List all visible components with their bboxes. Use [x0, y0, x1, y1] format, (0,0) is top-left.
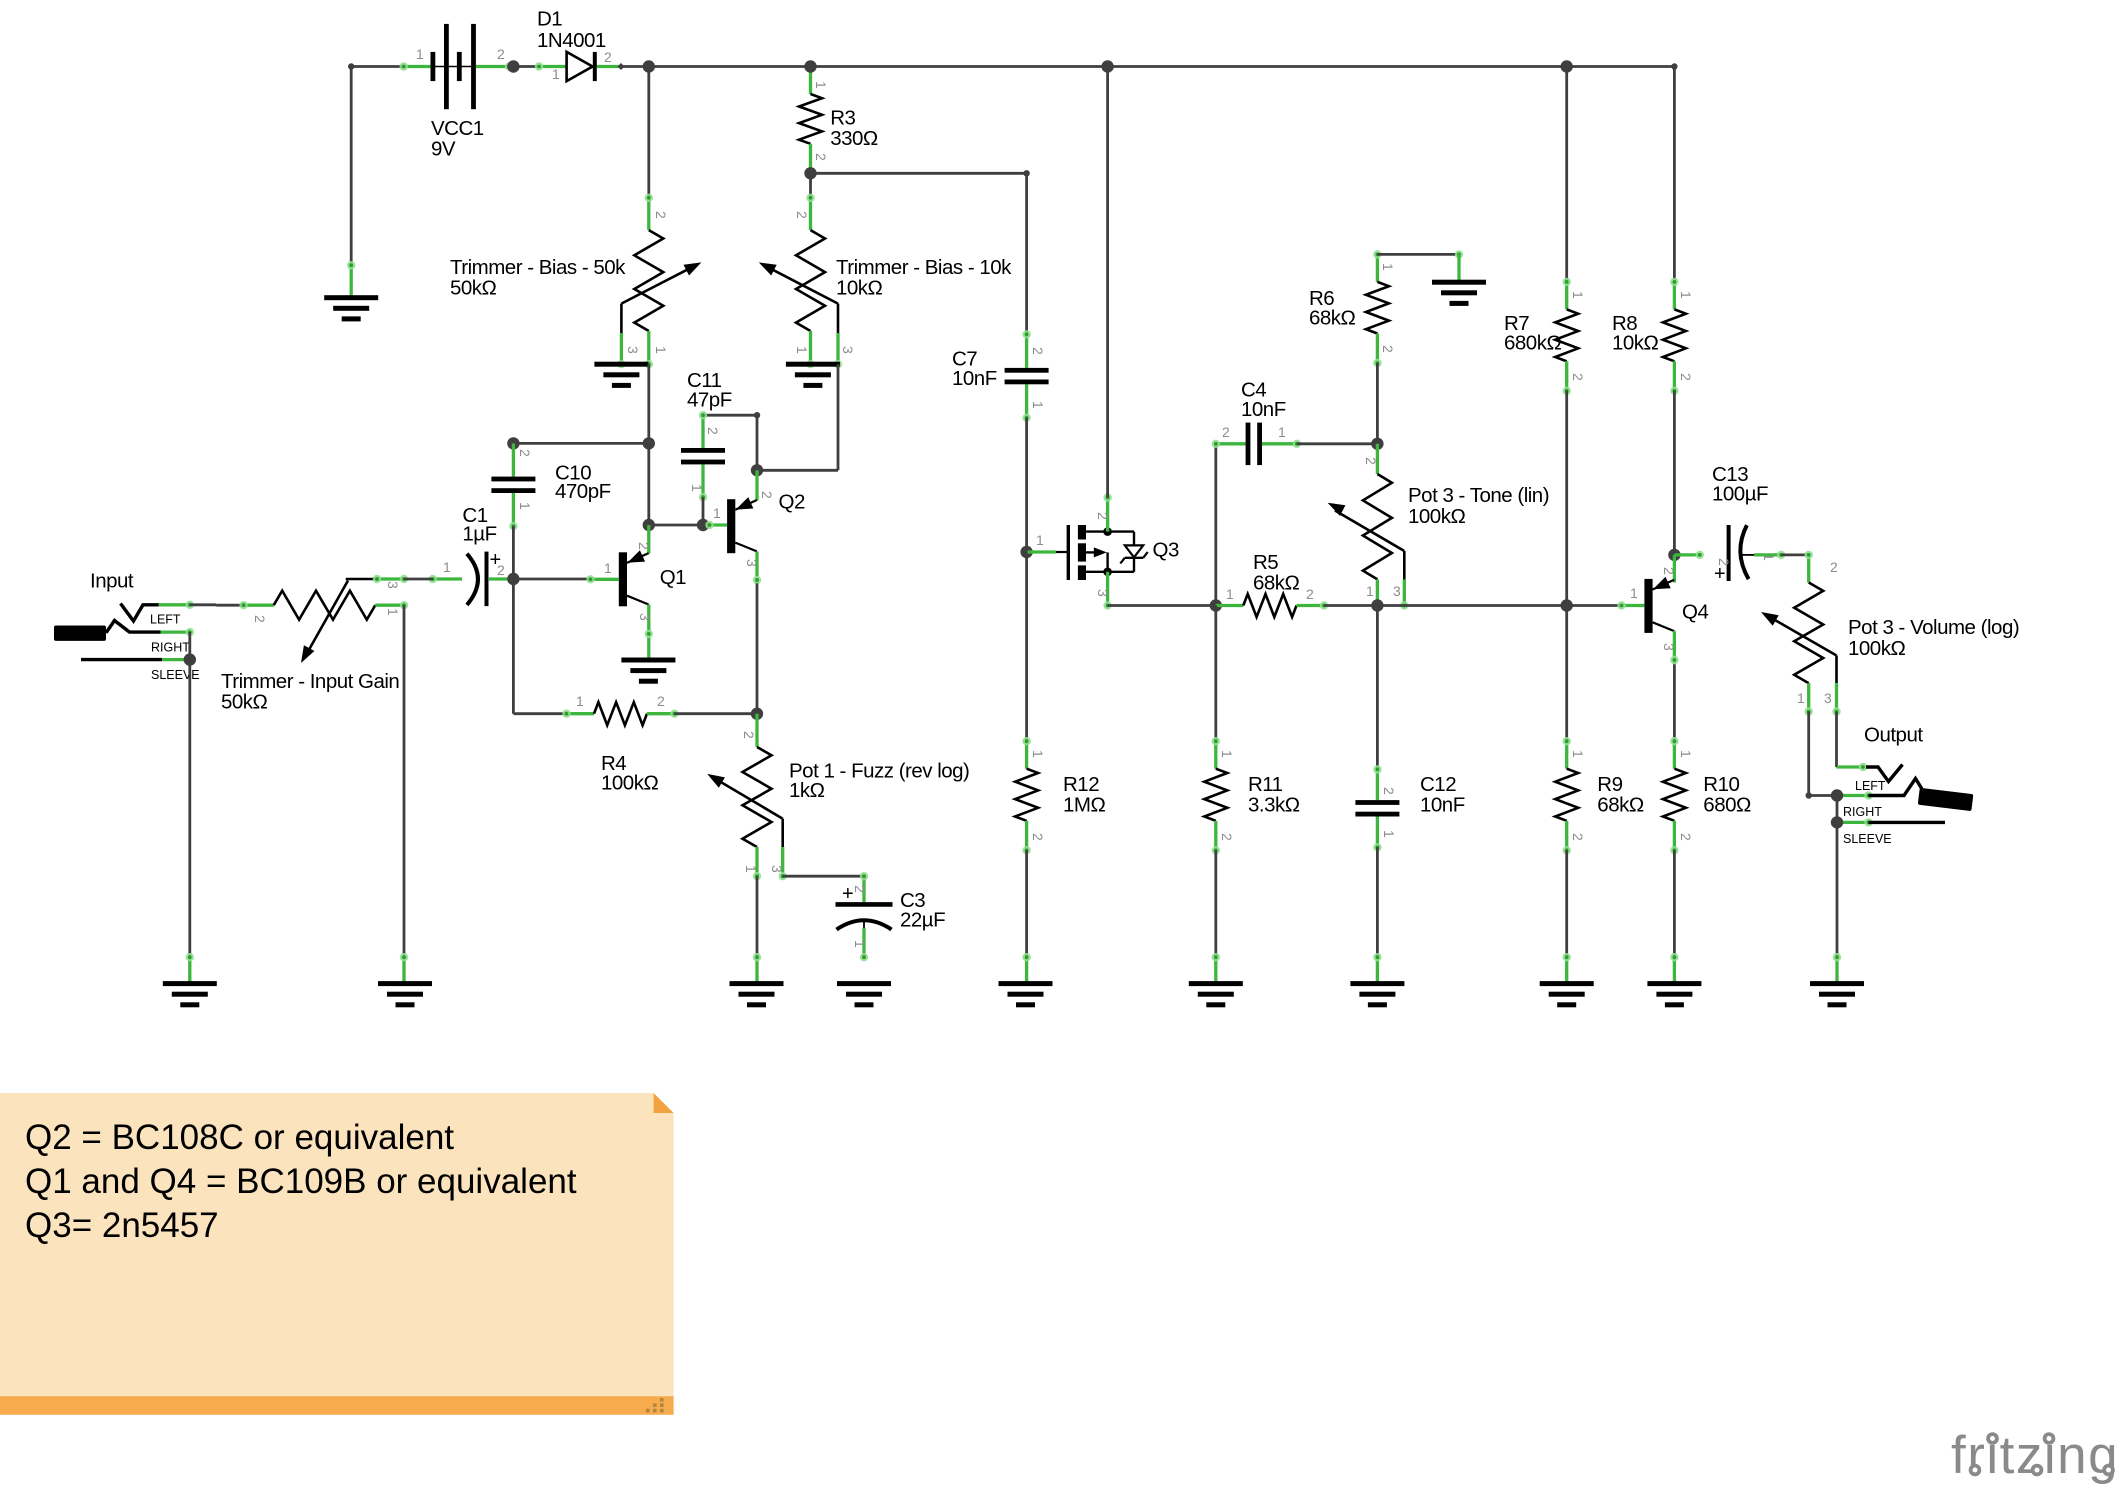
resistor R7 680k [1555, 278, 1578, 395]
svg-text:Q4: Q4 [1682, 601, 1708, 624]
svg-text:Q3: Q3 [1153, 539, 1179, 562]
svg-text:68kΩ: 68kΩ [1309, 307, 1356, 330]
pin 1 label C1 [443, 559, 451, 575]
junction node rail R3 [804, 60, 816, 72]
label R7 680k [1504, 312, 1561, 355]
wire C1 node down to R4 [513, 579, 566, 714]
svg-text:3: 3 [385, 581, 401, 589]
note sticky [0, 1093, 674, 1415]
pin 1 label Q3 [1036, 532, 1044, 548]
pin 1 label C10 [517, 502, 533, 510]
pin 1 label R10 [1678, 750, 1694, 758]
capacitor C11 47pF [681, 411, 725, 501]
pin 1 label C7 [1030, 401, 1046, 409]
pin 1 label D1 [552, 66, 560, 82]
pin 1 label R7 [1570, 291, 1586, 299]
junction node R4 pot1 [751, 708, 763, 720]
pin 1 label Q4 [1630, 585, 1638, 601]
wire R3 to C7 [811, 170, 1030, 334]
svg-text:2: 2 [497, 562, 505, 578]
label R11 3.3k [1248, 773, 1300, 817]
svg-text:2: 2 [1030, 833, 1046, 841]
pin 1 label R12 [1030, 750, 1046, 758]
ground input jack [163, 953, 217, 1007]
wire R8 to Q4 collector node [1673, 391, 1676, 555]
svg-text:2: 2 [252, 615, 268, 623]
svg-text:SLEEVE: SLEEVE [151, 668, 200, 682]
resistor R11 3.3k [1204, 737, 1227, 855]
pin 2 label C13 [1716, 558, 1732, 566]
svg-text:Q2 = BC108C or equivalent: Q2 = BC108C or equivalent [25, 1118, 454, 1157]
diode D1 1N4001 [535, 52, 625, 81]
svg-text:680kΩ: 680kΩ [1504, 332, 1561, 355]
svg-text:1: 1 [1219, 750, 1235, 758]
pin 3 label trimmer gain [385, 581, 401, 589]
label C3 22uF [900, 889, 945, 932]
pin 2 label C1 [497, 562, 505, 578]
pin 2 label trimmer50k [653, 211, 669, 219]
pin 1 label C11 [689, 484, 705, 492]
note text line 2 [25, 1162, 577, 1201]
wire input left to trimmer [190, 603, 244, 606]
junction node Q3 gate [1020, 546, 1032, 558]
svg-text:3: 3 [1661, 643, 1677, 651]
pin 3 label trimmer50k [625, 346, 641, 354]
wire Q2 base stub [705, 521, 727, 529]
pin 1 label Q1 [604, 560, 612, 576]
pin 2 label C11 [705, 427, 721, 435]
input jack J1 [54, 601, 194, 660]
svg-text:1: 1 [385, 608, 401, 616]
wire base row [649, 524, 709, 527]
junction node tone pin1 [1371, 599, 1383, 611]
svg-text:Pot 3 - Tone (lin): Pot 3 - Tone (lin) [1408, 484, 1549, 507]
label C4 10nF [1241, 379, 1286, 422]
label R3 330 [830, 107, 878, 151]
capacitor C7 10nF [1005, 330, 1049, 422]
svg-text:3: 3 [1824, 690, 1832, 706]
svg-text:2: 2 [741, 731, 757, 739]
pin 1 label C12 [1381, 830, 1397, 838]
svg-text:1: 1 [743, 865, 759, 873]
svg-text:1: 1 [1570, 750, 1586, 758]
label Q4 [1682, 601, 1708, 624]
junction node diode out [643, 60, 655, 72]
pin 1 label pot tone [1366, 583, 1374, 599]
svg-text:1: 1 [852, 940, 868, 948]
label RIGHT input [151, 641, 190, 655]
transistor Q3 JFET [1028, 493, 1148, 609]
svg-text:1: 1 [1030, 401, 1046, 409]
wire C10 row [513, 442, 648, 445]
pin 3 label pot tone [1393, 583, 1401, 599]
pin 2 label C3 [852, 885, 868, 893]
pin 1 label C4 [1278, 424, 1286, 440]
svg-text:9V: 9V [431, 138, 456, 161]
ground battery [324, 261, 378, 321]
svg-text:2: 2 [1716, 558, 1732, 566]
svg-text:Input: Input [90, 570, 134, 593]
ground R12 [999, 953, 1053, 1007]
potentiometer Pot3 Volume [1761, 551, 1841, 716]
junction node Q4 collector [1668, 549, 1680, 561]
label R4 100k [601, 752, 658, 795]
svg-text:2: 2 [1661, 567, 1677, 575]
svg-text:2: 2 [1570, 833, 1586, 841]
svg-text:1: 1 [1761, 553, 1777, 561]
resistor R6 68k [1366, 250, 1389, 367]
wire Q2 emitter down [756, 583, 759, 713]
label Q3 [1153, 539, 1179, 562]
wire R5 to tone pin1 [1324, 604, 1377, 607]
pin 2 label R6 [1380, 345, 1396, 353]
svg-text:2: 2 [1030, 347, 1046, 355]
ground R6 [1432, 254, 1486, 306]
note text line 1 [25, 1118, 454, 1157]
wire R4 to pot1 node [675, 712, 758, 715]
svg-text:1: 1 [794, 346, 810, 354]
wire Q4 emitter stub [1670, 631, 1678, 664]
wire C7 to gate node [1025, 418, 1028, 552]
wire trimmer10k wiper to Q2 collector node [757, 364, 838, 470]
junction node C11 bottom [697, 519, 709, 531]
pin 1 label R9 [1570, 750, 1586, 758]
resistor R9 68k [1555, 737, 1578, 855]
label R10 680 [1703, 773, 1751, 817]
pin 2 label C10 [517, 449, 533, 457]
plus label C1 [490, 549, 502, 571]
pin 1 label battery [416, 46, 424, 62]
capacitor C13 100uF [1674, 525, 1785, 581]
pin 2 label pot tone [1363, 457, 1379, 465]
label RIGHT output [1843, 805, 1882, 819]
svg-text:1: 1 [1380, 263, 1396, 271]
note text line 3 [25, 1206, 219, 1245]
trimmer Trimmer-Bias-50k [617, 67, 701, 369]
pin 2 label Q1 [636, 542, 652, 550]
svg-text:1: 1 [576, 693, 584, 709]
wire C4 to tone node [1297, 442, 1378, 445]
label R5 68k [1253, 551, 1300, 595]
capacitor C3 22uF [836, 872, 893, 961]
wire R9 node down [1565, 606, 1568, 742]
svg-text:50kΩ: 50kΩ [450, 277, 497, 300]
svg-text:50kΩ: 50kΩ [221, 691, 268, 714]
label Trimmer - Bias - 10k [836, 256, 1012, 300]
trimmer Trimmer-Bias-10k [759, 173, 842, 368]
ground C3 [837, 981, 891, 1007]
wire rail to R7 [1565, 67, 1568, 282]
resistor R4 100k [562, 702, 678, 725]
ground trimmer gain [378, 953, 432, 1007]
svg-text:+: + [1714, 563, 1726, 585]
svg-text:680Ω: 680Ω [1703, 794, 1751, 817]
label D1 1N4001 [537, 8, 606, 53]
junction node output sleeve [1831, 816, 1843, 828]
svg-text:RIGHT: RIGHT [1843, 805, 1882, 819]
label R9 68k [1597, 773, 1644, 817]
wire pot volume pin1 to output right [1806, 712, 1838, 799]
svg-text:1µF: 1µF [462, 523, 496, 546]
pin 1 label Q2 [713, 505, 721, 521]
svg-text:10kΩ: 10kΩ [1612, 332, 1659, 355]
wire gate node to R12 [1025, 552, 1028, 741]
svg-text:1: 1 [653, 346, 669, 354]
plus label C13 [1714, 563, 1726, 585]
svg-text:3: 3 [1393, 583, 1401, 599]
pin 1 label C13 [1761, 553, 1777, 561]
svg-text:1: 1 [1797, 690, 1805, 706]
svg-text:3.3kΩ: 3.3kΩ [1248, 794, 1300, 817]
pin 1 label trimmer50k [653, 346, 669, 354]
label VCC1 9V [431, 117, 484, 161]
svg-text:1: 1 [1630, 585, 1638, 601]
svg-text:D1: D1 [537, 8, 562, 31]
wire top rail main (diode cathode to R8 column) [618, 65, 1674, 68]
pin 1 label R6 [1380, 263, 1396, 271]
junction node input sleeve [184, 653, 196, 665]
label SLEEVE output [1843, 832, 1892, 846]
pin 1 label trimmer gain [385, 608, 401, 616]
label C7 10nF [952, 348, 997, 391]
battery VCC1 9V [400, 24, 514, 109]
svg-text:1: 1 [813, 81, 829, 89]
svg-text:2: 2 [1222, 424, 1230, 440]
wire pot volume pin3 to output left [1835, 712, 1838, 767]
label SLEEVE input [151, 668, 200, 682]
wire input sleeve to ground [188, 660, 191, 958]
svg-text:1: 1 [604, 560, 612, 576]
svg-text:+: + [842, 883, 854, 905]
pin 2 label R7 [1570, 373, 1586, 381]
ground Q1 emitter [621, 658, 675, 684]
svg-text:2: 2 [759, 491, 775, 499]
pin 1 label R11 [1219, 750, 1235, 758]
junction node rail R7 [1561, 60, 1573, 72]
junction node C1 out [507, 573, 519, 585]
pin 2 label battery [497, 46, 505, 62]
svg-text:10nF: 10nF [1420, 794, 1465, 817]
svg-text:SLEEVE: SLEEVE [1843, 832, 1892, 846]
svg-text:2: 2 [1830, 559, 1838, 575]
resistor R10 680 [1663, 737, 1686, 855]
wire trimmer50k to C10 row and Q1 [647, 364, 650, 525]
junction node output right [1831, 789, 1843, 801]
svg-text:1: 1 [1678, 750, 1694, 758]
capacitor C12 10nF [1355, 765, 1399, 851]
wire tone pin1 to C12 [1376, 606, 1379, 770]
svg-text:1kΩ: 1kΩ [789, 779, 825, 802]
resistor R12 1M [1015, 737, 1038, 855]
pin 2 label D1 [604, 49, 612, 65]
pin 2 label C7 [1030, 347, 1046, 355]
label Q2 [779, 491, 805, 514]
capacitor C1 1uF [429, 552, 514, 607]
svg-text:3: 3 [637, 613, 653, 621]
wire trimmer gain pin1 to ground [403, 605, 406, 957]
wire tone to Q4 base [1377, 604, 1621, 607]
pin 1 label pot1 [743, 865, 759, 873]
pin 3 label Q1 [637, 613, 653, 621]
pin 2 label C4 [1222, 424, 1230, 440]
label C13 100uF [1712, 463, 1768, 506]
pin 2 label R5 [1306, 586, 1314, 602]
ground R10 [1647, 953, 1701, 1007]
label Trimmer - Input Gain [221, 670, 399, 714]
resistor R5 68k [1216, 594, 1328, 617]
pin 1 label C3 [852, 940, 868, 948]
pin 3 label pot1 [769, 865, 785, 873]
svg-text:Pot 3 - Volume (log): Pot 3 - Volume (log) [1848, 616, 2019, 639]
wire top rail battery to diode [513, 65, 539, 68]
svg-text:100kΩ: 100kΩ [601, 772, 658, 795]
pin 3 label Q4 [1661, 643, 1677, 651]
junction node tone top [1371, 438, 1383, 450]
svg-text:2: 2 [1678, 833, 1694, 841]
svg-text:470pF: 470pF [555, 480, 611, 503]
svg-text:2: 2 [1219, 833, 1235, 841]
pin 2 label trimmer gain [252, 615, 268, 623]
svg-text:2: 2 [497, 46, 505, 62]
wire R6 top to ground [1377, 250, 1463, 258]
svg-text:1: 1 [552, 66, 560, 82]
pin 3 label trimmer10k [840, 346, 856, 354]
svg-text:2: 2 [636, 542, 652, 550]
wire Q2 emitter stub [753, 552, 761, 585]
svg-text:2: 2 [852, 885, 868, 893]
svg-text:100kΩ: 100kΩ [1848, 637, 1905, 660]
svg-text:330Ω: 330Ω [830, 127, 878, 150]
label Q1 [660, 566, 686, 589]
wire trimmer gain pin3 to C1 [404, 578, 433, 581]
trimmer Trimmer-Input-Gain [239, 575, 408, 663]
svg-text:1: 1 [1381, 830, 1397, 838]
svg-text:2: 2 [794, 211, 810, 219]
svg-text:3: 3 [840, 346, 856, 354]
pin 3 label Q3 [1095, 589, 1111, 597]
svg-text:LEFT: LEFT [150, 613, 181, 627]
svg-text:68kΩ: 68kΩ [1597, 794, 1644, 817]
label Trimmer - Bias - 50k [450, 256, 626, 300]
svg-text:2: 2 [1570, 373, 1586, 381]
junction node C10 top [507, 437, 519, 449]
ground trimmer50k [594, 362, 648, 388]
wire pot1 pin1 to ground [756, 876, 759, 957]
label LEFT input [150, 613, 181, 627]
ground R11 [1189, 953, 1243, 1007]
pin 3 label pot volume [1824, 690, 1832, 706]
svg-text:100kΩ: 100kΩ [1408, 505, 1465, 528]
wire R10 to ground [1673, 850, 1676, 957]
output jack J2 [1837, 763, 1973, 827]
wire Q4 base stub [1617, 601, 1644, 609]
pin 1 label R4 [576, 693, 584, 709]
resistor R3 330 [799, 67, 822, 174]
wire C11 top loop [703, 412, 760, 470]
wire Q3 drain column [1106, 67, 1109, 498]
pin 2 label R3 [813, 153, 829, 161]
potentiometer Pot1 Fuzz [707, 714, 787, 881]
svg-text:2: 2 [1306, 586, 1314, 602]
pin 2 label R8 [1678, 373, 1694, 381]
svg-text:1: 1 [1570, 291, 1586, 299]
svg-text:3: 3 [769, 865, 785, 873]
wire R12 to ground [1025, 850, 1028, 957]
pin 1 label R5 [1226, 586, 1234, 602]
wire C12 to ground [1376, 847, 1379, 957]
label C1 1uF [462, 504, 496, 546]
svg-text:RIGHT: RIGHT [151, 641, 190, 655]
svg-text:2: 2 [1381, 787, 1397, 795]
svg-text:2: 2 [1678, 373, 1694, 381]
label Pot 3 - Tone (lin) [1408, 484, 1549, 528]
junction node R3 bottom [804, 167, 816, 179]
pin 2 label Q4 [1661, 567, 1677, 575]
svg-text:2: 2 [657, 693, 665, 709]
transistor Q1 [619, 550, 649, 606]
svg-text:3: 3 [625, 346, 641, 354]
svg-text:1MΩ: 1MΩ [1063, 794, 1105, 817]
junction node Q2 collector [751, 464, 763, 476]
wire Q1 base stub [586, 575, 619, 583]
pin 2 label Q3 [1095, 512, 1111, 520]
svg-text:1: 1 [1678, 291, 1694, 299]
transistor Q4 [1644, 577, 1674, 633]
label Input [90, 570, 134, 593]
wire C4 pin2 drop [1214, 444, 1217, 606]
junction node battery-diode [507, 60, 519, 72]
svg-text:Q1 and Q4 = BC109B or equivale: Q1 and Q4 = BC109B or equivalent [25, 1162, 577, 1201]
wire C11 to base row [702, 497, 705, 525]
wire rail to R8 [1671, 63, 1677, 282]
svg-text:1: 1 [416, 46, 424, 62]
ground trimmer10k [786, 362, 840, 388]
svg-text:10kΩ: 10kΩ [836, 277, 883, 300]
pin 2 label Q2 [759, 491, 775, 499]
wire Q3 source to R5 node [1108, 604, 1216, 607]
wire R7 to R9 node [1565, 391, 1568, 606]
pin 2 label trimmer10k [794, 211, 810, 219]
svg-text:Q2: Q2 [779, 491, 805, 514]
plus label C3 [842, 883, 854, 905]
svg-text:1: 1 [1036, 532, 1044, 548]
svg-text:2: 2 [1095, 512, 1111, 520]
transistor Q2 [727, 497, 757, 553]
label LEFT output [1855, 779, 1886, 793]
wire C10 to C1 node [512, 526, 515, 579]
pin 2 label pot volume [1830, 559, 1838, 575]
svg-text:Q3= 2n5457: Q3= 2n5457 [25, 1206, 219, 1245]
capacitor C10 470pF [491, 443, 535, 530]
label R6 68k [1309, 287, 1356, 330]
junction node rail Q3 drain [1101, 60, 1113, 72]
label Output [1864, 724, 1923, 747]
svg-text:2: 2 [653, 211, 669, 219]
label Pot 1 - Fuzz (rev log) [789, 760, 969, 803]
svg-text:2: 2 [705, 427, 721, 435]
svg-text:1: 1 [1226, 586, 1234, 602]
svg-text:1: 1 [689, 484, 705, 492]
label Pot 3 - Volume (log) [1848, 616, 2019, 660]
wire output sleeve to ground [1836, 822, 1839, 957]
wire input right-sleeve link [188, 632, 191, 660]
potentiometer Pot3 Tone [1328, 444, 1409, 610]
pin 1 label pot volume [1797, 690, 1805, 706]
pin 2 label R9 [1570, 833, 1586, 841]
capacitor C4 10nF [1212, 423, 1302, 466]
pin 1 label R8 [1678, 291, 1694, 299]
svg-text:1: 1 [1366, 583, 1374, 599]
